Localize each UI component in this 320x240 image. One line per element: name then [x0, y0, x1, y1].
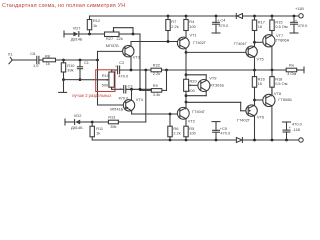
svg-text:0.5 Ом: 0.5 Ом	[275, 81, 288, 86]
svg-text:+11В: +11В	[295, 6, 304, 11]
svg-text:22k: 22k	[117, 36, 123, 41]
VT3 emitter wire	[130, 57, 132, 71]
resistor R4	[184, 15, 197, 38]
red box	[96, 70, 115, 92]
bottom rail	[92, 139, 236, 141]
svg-text:VT2: VT2	[188, 119, 195, 124]
VT4 collector	[131, 89, 133, 100]
resistor R11	[90, 122, 103, 140]
svg-text:X1: X1	[8, 51, 13, 56]
node R10 top	[62, 59, 65, 62]
node R7 bottom	[167, 40, 170, 43]
potentiometer R27	[105, 28, 134, 41]
svg-text:VT8: VT8	[274, 91, 281, 96]
svg-text:C4: C4	[220, 17, 226, 22]
svg-text:C3: C3	[128, 83, 133, 88]
transistor VT5	[234, 41, 264, 61]
node VT6/VT8 base row	[253, 99, 256, 102]
transistor VT7	[263, 33, 290, 47]
VT2 collector	[185, 119, 187, 127]
top rail	[90, 15, 237, 17]
svg-text:1k: 1k	[93, 23, 97, 28]
node VT4 collector / node V2 bottom	[130, 88, 133, 91]
resistor R22	[151, 63, 162, 76]
transistor VT9	[198, 75, 225, 91]
svg-text:ГТ404Г: ГТ404Г	[234, 41, 248, 46]
capacitor bottom right 470.0	[283, 121, 303, 141]
svg-text:R20: R20	[190, 79, 198, 84]
bias string	[185, 73, 188, 76]
svg-text:R19: R19	[102, 73, 109, 78]
resistor R12	[87, 16, 100, 34]
svg-text:3.3k: 3.3k	[153, 92, 160, 97]
wire V2 vertical	[139, 34, 141, 89]
svg-text:470.0: 470.0	[298, 23, 309, 28]
svg-text:VD7: VD7	[73, 25, 81, 30]
svg-text:VT9: VT9	[209, 75, 216, 80]
svg-text:1k: 1k	[46, 61, 50, 66]
VT1 emitter node	[185, 48, 187, 52]
svg-text:VT4: VT4	[136, 97, 144, 102]
VT2 emitter node	[185, 102, 187, 108]
svg-text:Д814Б: Д814Б	[71, 37, 83, 42]
resistor R17	[252, 15, 265, 43]
svg-text:470.0: 470.0	[220, 131, 231, 136]
svg-text:МП37Б: МП37Б	[106, 43, 119, 48]
terminal -11V	[299, 138, 303, 142]
svg-text:МП41Б: МП41Б	[110, 107, 123, 112]
resistor R9 feedback	[140, 83, 162, 97]
wire wiper row	[64, 79, 108, 81]
svg-text:VT5: VT5	[257, 57, 264, 62]
svg-text:VD2: VD2	[74, 113, 82, 118]
capacitor C5	[212, 122, 231, 142]
svg-text:C8: C8	[30, 51, 35, 56]
diode VD7	[71, 25, 83, 41]
resistor R16	[252, 70, 264, 100]
svg-text:R8: R8	[45, 53, 50, 58]
capacitor C3	[119, 83, 152, 100]
transistor VT6	[237, 105, 264, 122]
resistor R10	[61, 60, 75, 80]
svg-text:16: 16	[258, 81, 262, 86]
svg-text:-11В: -11В	[292, 127, 300, 132]
svg-text:16: 16	[258, 24, 262, 29]
VT3 collector wire	[130, 42, 132, 46]
svg-text:0.5 Ом: 0.5 Ом	[275, 24, 288, 29]
resistor Rn load	[286, 63, 304, 76]
transistor VT2	[177, 107, 206, 123]
capacitor C2	[112, 60, 129, 78]
svg-text:C1: C1	[84, 60, 89, 65]
node V3 top	[144, 69, 147, 72]
svg-text:ГТ806Б: ГТ806Б	[278, 97, 292, 102]
bottom rail nodes	[253, 139, 256, 142]
resistor R18	[270, 70, 288, 95]
wire top zener row	[64, 33, 73, 35]
svg-text:R27: R27	[106, 36, 113, 41]
svg-text:ГТ402Г: ГТ402Г	[193, 40, 207, 45]
svg-text:39k: 39k	[67, 67, 73, 72]
svg-text:C2: C2	[119, 60, 124, 65]
svg-text:500: 500	[188, 88, 195, 93]
resistor R8	[43, 53, 98, 66]
svg-text:R22: R22	[153, 63, 160, 68]
node C1 top	[79, 59, 82, 62]
C3 row	[112, 88, 124, 90]
diode VD2	[71, 113, 83, 130]
terminal tick upper left	[63, 31, 65, 37]
svg-text:R13: R13	[108, 114, 115, 119]
svg-text:500: 500	[102, 82, 109, 87]
svg-text:лучше 2 раздельных: лучше 2 раздельных	[72, 93, 111, 98]
svg-text:2.2k: 2.2k	[173, 131, 180, 136]
node wiper row left	[62, 78, 65, 81]
resistor R15	[270, 15, 288, 36]
svg-text:ГТ806А: ГТ806А	[276, 38, 290, 43]
resistor R13	[92, 114, 146, 128]
output row	[120, 69, 287, 71]
capacitor C8	[30, 51, 43, 68]
capacitor C1	[77, 60, 89, 80]
terminal +11V	[299, 14, 303, 18]
VT4 emitter to row 114	[131, 111, 133, 114]
svg-text:Rн: Rн	[289, 63, 294, 68]
svg-text:2.2k: 2.2k	[153, 71, 160, 76]
node R22 right	[165, 69, 168, 72]
svg-text:1k: 1k	[96, 131, 100, 136]
svg-text:VT3: VT3	[133, 55, 140, 60]
potentiometer R20	[184, 79, 201, 96]
potentiometer R19	[102, 70, 115, 89]
node zener top	[88, 33, 91, 36]
diode bottom rail	[236, 138, 242, 143]
transistor VT3	[106, 43, 140, 60]
resistor R5	[184, 126, 197, 142]
svg-text:2.2k: 2.2k	[171, 24, 178, 29]
svg-text:4 Ом: 4 Ом	[287, 71, 296, 76]
svg-text:VT6: VT6	[257, 115, 264, 120]
svg-text:VT1: VT1	[190, 33, 197, 38]
diode top rail	[236, 14, 242, 19]
ground below R10	[59, 80, 67, 93]
svg-text:Д814Б: Д814Б	[71, 125, 83, 130]
svg-text:100: 100	[189, 24, 196, 29]
svg-text:R9: R9	[153, 83, 158, 88]
transistor VT8	[263, 91, 293, 106]
node R6 top	[169, 113, 172, 116]
input terminal X1	[8, 51, 37, 63]
svg-text:1.0: 1.0	[33, 63, 39, 68]
resistor R6	[168, 114, 181, 141]
node pot right	[132, 33, 135, 36]
svg-text:470.0: 470.0	[292, 121, 303, 126]
capacitor 470.0 at +11V rail	[290, 15, 308, 33]
bottom zener row	[65, 121, 75, 123]
svg-text:39k: 39k	[110, 124, 116, 129]
svg-text:КТ361Б: КТ361Б	[210, 82, 224, 87]
transistor VT4	[110, 97, 143, 112]
wire pot to V2	[133, 33, 140, 35]
node VT3 emitter on output row	[130, 69, 133, 72]
svg-text:ГТ402Г: ГТ402Г	[237, 117, 251, 122]
svg-text:100: 100	[189, 131, 196, 136]
svg-text:Стандартная схема, но полная с: Стандартная схема, но полная симметрия У…	[2, 3, 125, 9]
transistor VT1	[177, 33, 207, 49]
resistor R7	[166, 15, 179, 42]
output row nodes	[253, 69, 256, 72]
input split node	[96, 59, 99, 62]
capacitor C4	[212, 15, 229, 33]
svg-text:470.0: 470.0	[219, 23, 230, 28]
svg-text:ГТ404Г: ГТ404Г	[192, 109, 206, 114]
svg-text:470.0: 470.0	[118, 73, 129, 78]
